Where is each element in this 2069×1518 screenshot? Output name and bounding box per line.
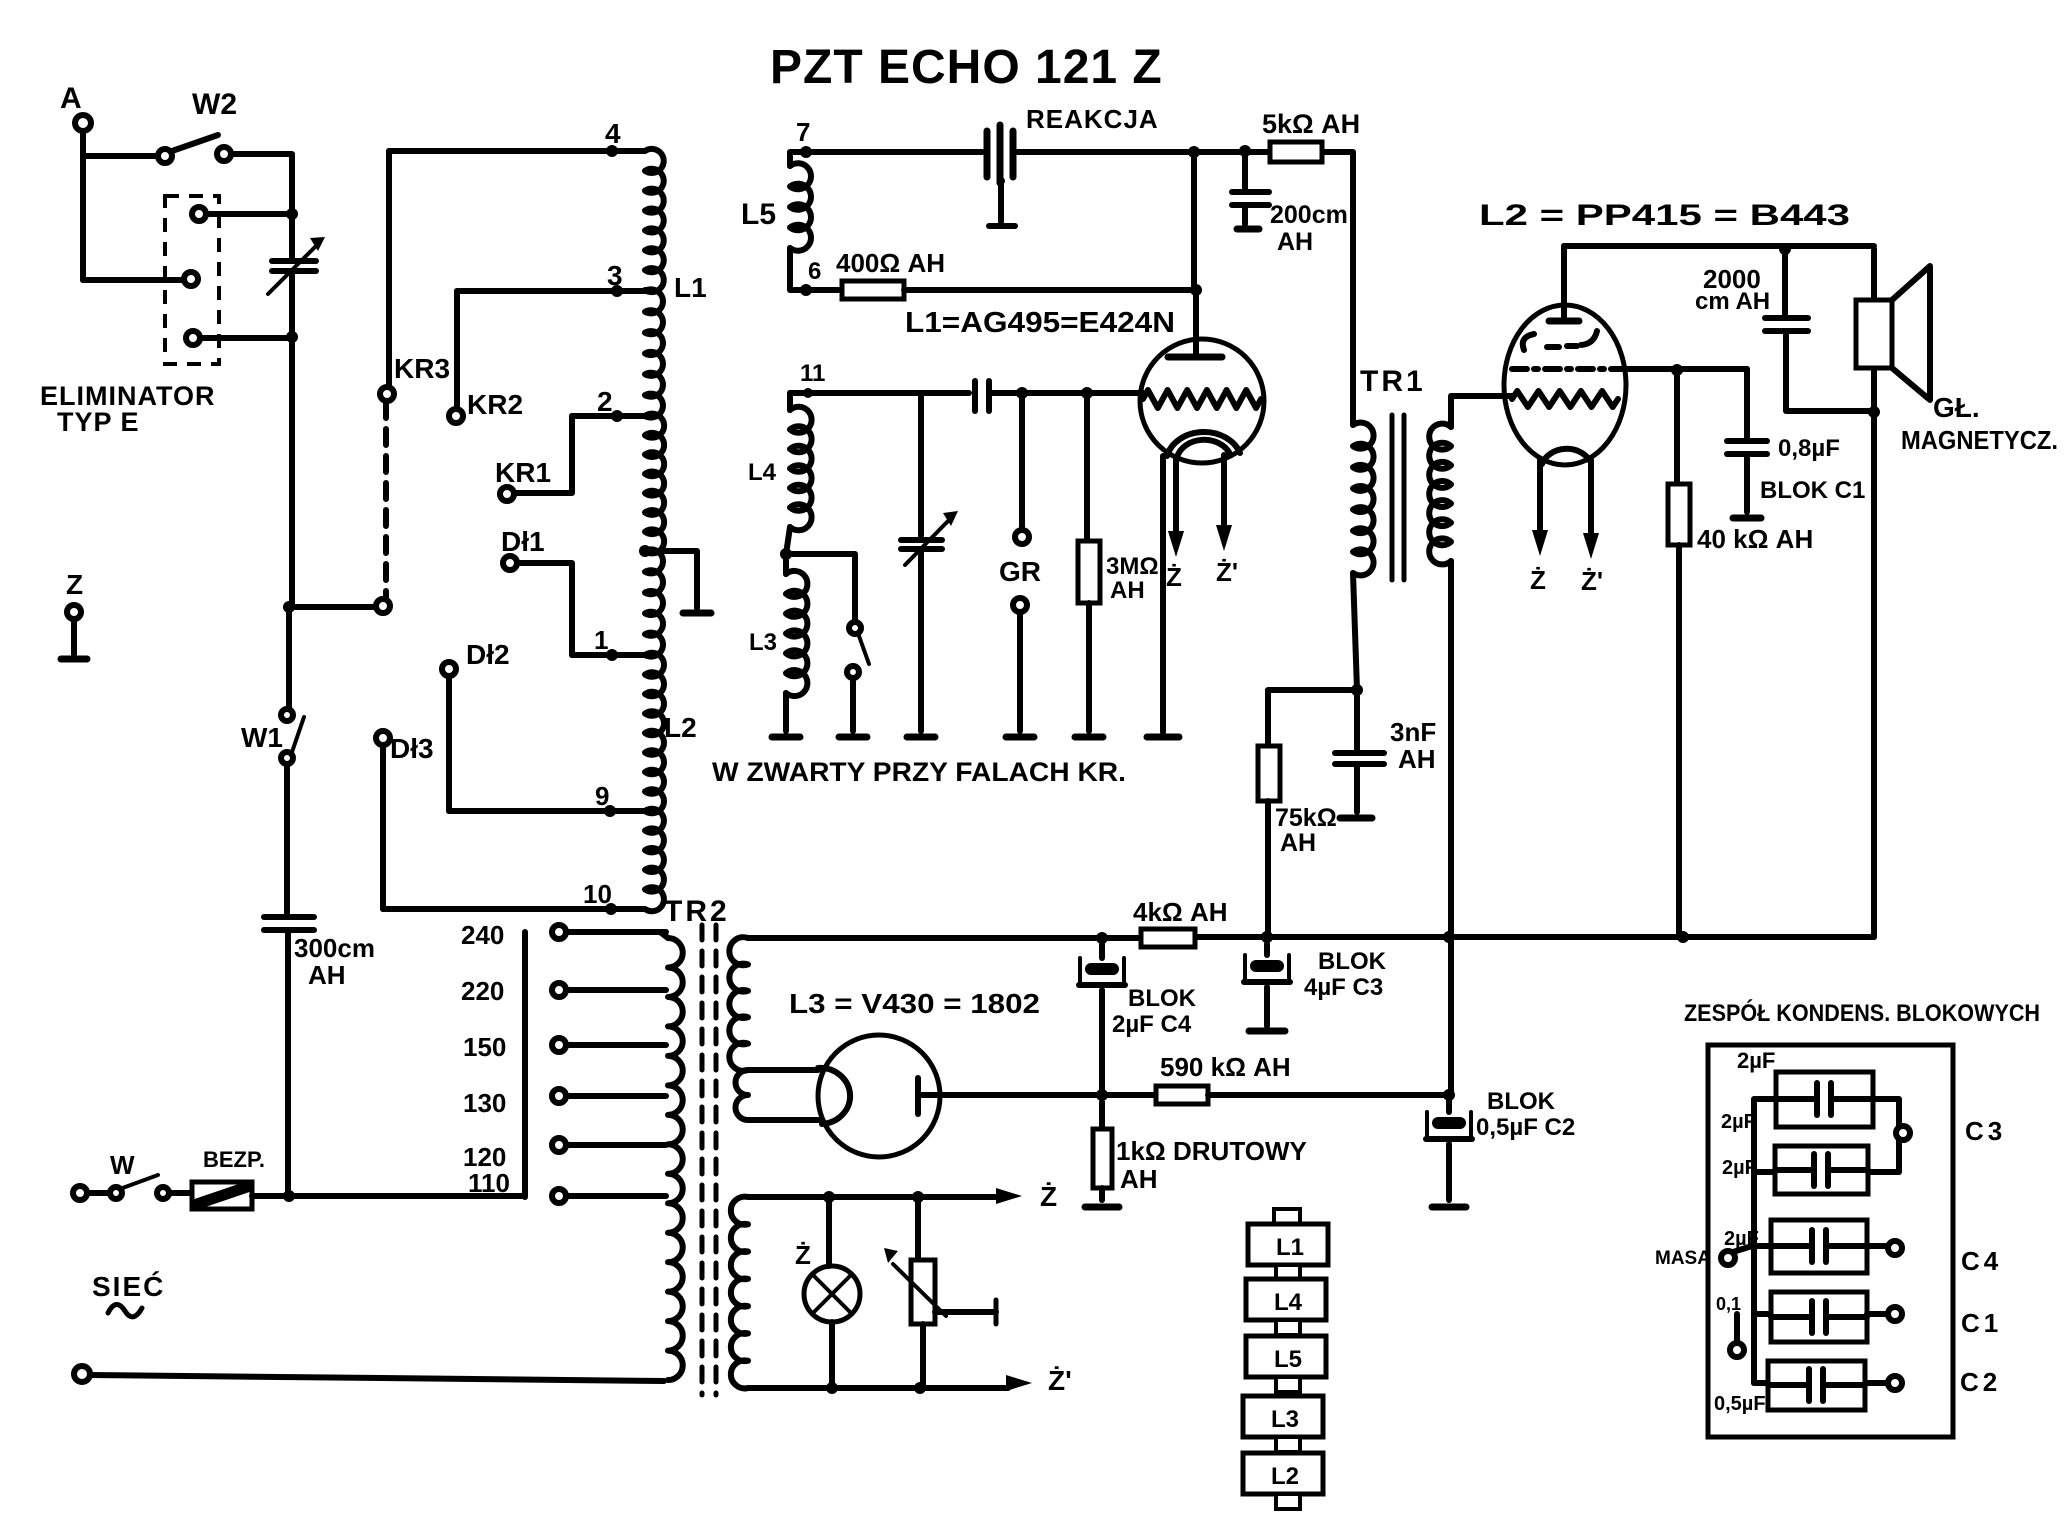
potentiometer [884,1197,996,1387]
node L4-L3 junction [780,527,792,560]
wire grid leak vertical [1191,152,1197,290]
node KR3-W1 junction [283,599,390,613]
wire 4V top [748,1194,1000,1200]
terminal Z [61,569,87,659]
svg-text:0,1: 0,1 [1716,1294,1741,1314]
terminal 130 [552,1089,666,1103]
tube L3 anode [918,1078,1102,1114]
coil unit box L2 [1243,1453,1323,1494]
svg-text:2µF: 2µF [1722,1157,1757,1179]
terminal 220 [552,983,666,997]
terminal 150 [552,1038,666,1052]
capacitor block box [1708,1045,1953,1437]
terminal C4 [1888,1241,2002,1276]
capacitor 2uF (C3 upper) [1737,1048,1873,1127]
terminal Dl2 [442,639,510,811]
svg-text:A: A [60,82,82,115]
svg-text:L4: L4 [1274,1289,1303,1316]
terminal C3 [1896,1116,2006,1146]
terminal GR [999,393,1041,737]
svg-text:C3: C3 [1965,1116,2006,1146]
capacitor 3nF AH [1335,690,1436,818]
wire grid row [790,390,969,396]
resistor 400Ohm AH [836,248,945,299]
label 150 [463,1032,506,1062]
label 11 [800,360,825,387]
label 4 [605,118,621,149]
svg-text:75kΩ: 75kΩ [1275,804,1337,832]
resistor 1kOhm wirewound [1085,1102,1307,1207]
wire C1 out [1867,1311,1888,1317]
wire [992,390,1143,396]
capacitor 2000cm AH [1695,249,1874,411]
tube L1 anode [1168,290,1222,357]
node bus C3 [1261,931,1273,943]
svg-text:4: 4 [605,118,621,149]
arrow Z 4V [996,1181,1057,1212]
svg-text:L2: L2 [664,712,697,743]
coil L2 section a [645,653,697,814]
svg-text:ZESPÓŁ KONDENS. BLOKOWYCH: ZESPÓŁ KONDENS. BLOKOWYCH [1684,999,2040,1027]
svg-text:L2 = PP415 = B443: L2 = PP415 = B443 [1479,199,1850,232]
svg-text:L3: L3 [1271,1406,1299,1433]
transformer TR1 label [1360,365,1426,398]
svg-text:Ż: Ż [795,1240,811,1270]
lamp Z indicator [795,1197,860,1388]
svg-text:Dł2: Dł2 [466,639,510,670]
tube L2 control grid (dashed) [1523,331,1597,350]
wire TR1 primary bottom [1353,573,1357,690]
svg-text:W ZWARTY PRZY FALACH KR.: W ZWARTY PRZY FALACH KR. [712,757,1126,787]
svg-text:W: W [110,1150,135,1180]
svg-text:200cm: 200cm [1270,201,1348,229]
title PZT ECHO 121 Z [770,41,1163,94]
node tap 6 [800,284,812,296]
svg-text:1kΩ DRUTOWY: 1kΩ DRUTOWY [1116,1136,1307,1166]
arrow Z output tube [1530,460,1548,595]
capacitor 200cm AH [1232,151,1348,256]
transformer TR2 primary [660,932,683,1380]
svg-text:400Ω AH: 400Ω AH [836,248,945,278]
capacitor 2uF C4 [1724,1220,1867,1273]
coil L1 section c [645,414,664,554]
node bus 40k [1677,931,1689,943]
wire anode to speaker [1564,243,1874,249]
wire tap 4 [389,145,644,157]
voltage selector bracket [522,932,528,1197]
svg-text:Ż: Ż [1530,565,1546,595]
terminal KR1 [495,416,572,501]
svg-text:L4: L4 [748,459,777,486]
svg-text:130: 130 [463,1088,506,1118]
svg-text:BEZP.: BEZP. [203,1147,265,1172]
label REAKCJA [1026,104,1159,134]
svg-text:GŁ.: GŁ. [1933,392,1980,423]
wire 5k to TR1 [1322,152,1353,425]
label 10 [583,879,612,909]
arrow Z' 4V [1006,1365,1072,1396]
capacitor grid [975,381,989,411]
svg-text:150: 150 [463,1032,506,1062]
coil unit stub [1276,1265,1300,1280]
node 2000cm junction [1779,243,1791,255]
node pot bottom [914,1382,926,1394]
svg-text:L1: L1 [674,272,707,303]
node bus TR1 [1443,931,1455,943]
terminal 240 [552,925,666,939]
transformer TR1 primary [1353,423,1374,576]
svg-text:PZT ECHO 121 Z: PZT ECHO 121 Z [770,41,1163,94]
transformer TR1 core [1392,415,1404,580]
svg-text:SIEĆ: SIEĆ [92,1271,165,1302]
label 2uF [1722,1157,1757,1179]
coil L5 [741,152,811,251]
label SIEC [92,1271,165,1317]
variable capacitor (antenna trimmer) [268,237,325,294]
svg-text:BLOK: BLOK [1128,985,1197,1012]
svg-text:1: 1 [594,625,608,655]
node 3M junction [1081,387,1093,399]
svg-text:KR3: KR3 [394,353,450,384]
wire rectifier filament leads [748,1070,820,1120]
coil unit box L1 [1248,1224,1328,1265]
wire trunk [1754,1099,1776,1383]
label L3 = V430 = 1802 [789,988,1040,1019]
eliminator pin 2 [83,272,198,286]
tube L2 cathode arc [1542,449,1590,464]
terminal C1 [1888,1307,2002,1338]
resistor 3MOhm AH [1075,393,1159,737]
svg-text:C1: C1 [1961,1308,2002,1338]
svg-text:MAGNETYCZ.: MAGNETYCZ. [1901,425,2058,455]
svg-text:W2: W2 [192,88,237,121]
node lamp bottom [826,1382,838,1394]
capacitor 0,1uF C1 [1716,1292,1867,1342]
terminal 120 [552,1138,666,1152]
svg-text:BLOK: BLOK [1318,948,1387,975]
tube L3 envelope [818,1035,940,1157]
coil unit box L4 [1246,1279,1326,1320]
terminal KR3 [380,353,450,401]
label 6 [808,258,821,285]
variable capacitor tuning [901,393,958,737]
wire tap 1 [572,649,644,661]
coil unit box L5 [1246,1336,1326,1377]
wire tap 10 [383,903,644,915]
svg-text:L3: L3 [749,629,777,656]
wire coil mid ground [645,551,711,613]
tube L2 anode [1549,246,1579,321]
svg-text:cm AH: cm AH [1695,288,1770,315]
terminal Dl3 [376,731,434,909]
eliminator pin 1 [192,207,292,221]
svg-text:2µF C4: 2µF C4 [1112,1011,1192,1038]
tube L2 envelope [1504,305,1626,465]
svg-text:AH: AH [1280,829,1316,857]
dashed wire KR3 [383,402,389,598]
svg-text:0,5µF C2: 0,5µF C2 [1476,1114,1575,1141]
svg-text:2µF: 2µF [1737,1048,1775,1073]
wire 4V bottom [748,1385,1008,1391]
wire [904,284,1202,296]
transformer TR1 secondary [1429,424,1451,565]
coil L1 section b [645,289,663,417]
node TR1 bottom junction [1351,684,1363,696]
terminal KR2 [449,291,523,423]
svg-text:Z: Z [66,569,83,600]
label 1 [594,625,608,655]
svg-text:BLOK C1: BLOK C1 [1760,477,1865,504]
arrow Z' output tube [1581,460,1603,596]
svg-text:BLOK: BLOK [1487,1088,1556,1115]
wire C2 out [1865,1380,1888,1386]
capacitor BLOK 0,5uF C2 [1426,1088,1575,1207]
resistor 4kOhm AH [1133,897,1228,947]
wire tap 9 [449,805,644,817]
label ZESPOL KONDENS. BLOKOWYCH [1684,999,2040,1027]
switch KR shorting [786,554,869,737]
wire [289,1193,525,1199]
wire HT bus [748,937,1874,938]
svg-text:4µF C3: 4µF C3 [1304,974,1383,1001]
node speaker bottom junction [1868,406,1880,418]
node tap 7 [800,146,812,158]
wire TR1 sec bottom [1448,561,1454,937]
wire C3 link [1868,1099,1899,1172]
capacitor 0,5uF C2 [1714,1361,1865,1415]
node var-cap bottom junction [286,331,298,343]
wire TR1 sec top [1451,396,1512,427]
wire [231,154,292,261]
tube L1 grid [1143,390,1261,408]
svg-text:C4: C4 [1961,1246,2002,1276]
svg-text:AH: AH [1277,228,1313,256]
label L1=AG495=E424N [905,307,1175,339]
coil unit stub bottom [1276,1494,1300,1509]
coil unit stub [1276,1437,1300,1452]
svg-text:KR2: KR2 [467,389,523,420]
coil unit stub top [1274,1209,1300,1226]
node pot top [912,1191,924,1203]
wire [1016,149,1270,155]
wire [289,271,295,606]
svg-text:3MΩ: 3MΩ [1106,553,1159,580]
svg-text:Dł3: Dł3 [390,733,434,764]
terminal C2 [1888,1367,2001,1397]
svg-text:Ż: Ż [1040,1181,1057,1212]
svg-text:L5: L5 [1274,1346,1302,1373]
svg-text:40 kΩ AH: 40 kΩ AH [1697,524,1813,554]
node bus C4 [1096,932,1108,944]
svg-text:AH: AH [308,960,346,990]
svg-text:L2: L2 [1271,1463,1299,1490]
transformer TR2 label [664,895,730,928]
transformer TR2 secondary 4V [731,1197,748,1389]
arrow Z' (filament) [1216,455,1238,587]
resistor 5kOhm AH [1262,109,1360,162]
svg-text:AH: AH [1398,744,1436,774]
svg-text:Ż: Ż [1166,562,1182,592]
capacitor 2uF (C3 lower) [1721,1111,1868,1194]
coil L4 [748,393,812,530]
terminal Dl1 [501,526,572,655]
capacitor BLOK 4uF C3 [1244,944,1387,1031]
node lamp top [823,1191,835,1203]
svg-text:MASA: MASA [1655,1248,1711,1269]
wire TR1 secondary to C2 [1448,937,1454,1095]
tube L3 filament [818,1068,850,1124]
wire [83,131,158,280]
label 7 [796,117,810,147]
node coil mid [639,545,651,557]
terminal A [60,82,91,131]
svg-text:AH: AH [1110,577,1145,604]
svg-text:4kΩ AH: 4kΩ AH [1133,897,1228,927]
label 120 [463,1142,506,1172]
wire C4 out [1867,1243,1888,1249]
svg-text:300cm: 300cm [294,933,375,963]
svg-text:Ż': Ż' [1048,1365,1072,1396]
capacitor 300cm AH [264,917,375,1196]
wire tap 2 [572,410,644,422]
tube L2 screen grid [1512,366,1747,372]
svg-text:6: 6 [808,258,821,285]
node 40k junction [1671,364,1683,376]
svg-text:11: 11 [800,360,825,387]
resistor 75kOhm AH [1258,746,1337,943]
tube L2 filament zigzag [1512,391,1618,407]
wire tap 3 [457,285,644,297]
label 3 [607,260,623,291]
wire cathode ground [1147,456,1179,737]
wire [790,248,842,290]
label 220 [461,976,504,1006]
transformer TR2 core [702,925,716,1395]
label L2 = PP415 = B443 [1479,199,1850,232]
label 110 [468,1168,510,1198]
svg-text:L1: L1 [1276,1234,1304,1261]
coil unit stub [1276,1320,1300,1335]
node fuse junction [283,1190,295,1202]
switch W2 [158,88,237,163]
svg-text:TR1: TR1 [1360,365,1426,398]
svg-text:TR2: TR2 [664,895,730,928]
svg-text:REAKCJA: REAKCJA [1026,104,1159,134]
terminal aux [1730,1314,1744,1357]
svg-text:7: 7 [796,117,810,147]
svg-text:110: 110 [468,1168,510,1198]
resistor 590kOhm AH [1102,1052,1449,1104]
svg-text:Ż': Ż' [1216,557,1238,587]
coil unit box L3 [1243,1396,1323,1437]
coil L3 [749,554,807,737]
svg-text:220: 220 [461,976,504,1006]
svg-text:L3 = V430 = 1802: L3 = V430 = 1802 [789,988,1040,1019]
label 130 [463,1088,506,1118]
switch W1 [241,607,304,913]
node GR junction [1016,387,1028,399]
node tap 11 [803,388,813,398]
wire KR3 riser [386,151,392,387]
svg-text:W1: W1 [241,722,283,753]
terminal MASA [1655,1246,1752,1269]
eliminator box [40,196,219,437]
label 2 [597,386,613,417]
svg-text:TYP E: TYP E [57,407,140,437]
wire [806,149,982,155]
terminal 110 [552,1189,666,1203]
svg-text:Dł1: Dł1 [501,526,545,557]
coil L1 section a [645,149,707,303]
switch W (mains) [73,1150,169,1200]
speaker GL. MAGNETYCZ. [1856,266,2058,455]
wire speaker riser [1871,249,1877,937]
node W2-top junction [286,208,298,220]
svg-text:AH: AH [1120,1164,1158,1194]
svg-text:2: 2 [597,386,613,417]
coil unit stub [1276,1377,1300,1392]
wire 75k branch [1268,690,1357,746]
label 240 [461,920,504,950]
capacitor REAKCJA (reaction) [987,125,1015,226]
capacitor BLOK 0,8uF C1 [1727,369,1865,518]
svg-text:2µF: 2µF [1721,1111,1756,1133]
eliminator pin 3 [186,331,292,345]
label W ZWARTY PRZY FALACH KR. [712,757,1126,787]
coil L2 section b [645,809,664,911]
svg-text:L1=AG495=E424N: L1=AG495=E424N [905,307,1175,339]
svg-text:5kΩ AH: 5kΩ AH [1262,109,1360,139]
node C2 junction [1443,1089,1455,1101]
tube L1 envelope [1140,339,1264,463]
terminal mains bottom [74,1366,90,1382]
capacitor BLOK 2uF C4 [1079,944,1197,1095]
resistor 40kOhm AH [1668,370,1813,937]
label 9 [595,781,609,811]
arrow Z (filament) [1166,458,1184,592]
node anode junction [1096,1089,1108,1101]
wire [90,1375,664,1381]
transformer TR2 secondary HV [729,937,748,1120]
svg-text:0,5µF: 0,5µF [1714,1393,1766,1415]
node 200cm junction [1239,145,1251,157]
svg-text:240: 240 [461,920,504,950]
svg-text:590 kΩ AH: 590 kΩ AH [1160,1052,1291,1082]
svg-text:Ż': Ż' [1581,566,1603,596]
fuse BEZP. [169,1147,289,1209]
svg-text:3nF: 3nF [1390,717,1436,747]
svg-text:KR1: KR1 [495,457,551,488]
svg-text:C2: C2 [1960,1367,2001,1397]
svg-text:L5: L5 [741,198,776,231]
node grid-leak left [1188,146,1200,158]
tube L1 cathode [1167,432,1240,457]
svg-text:GR: GR [999,556,1041,587]
coil L1 section d [645,549,663,656]
svg-text:0,8µF: 0,8µF [1778,435,1840,462]
